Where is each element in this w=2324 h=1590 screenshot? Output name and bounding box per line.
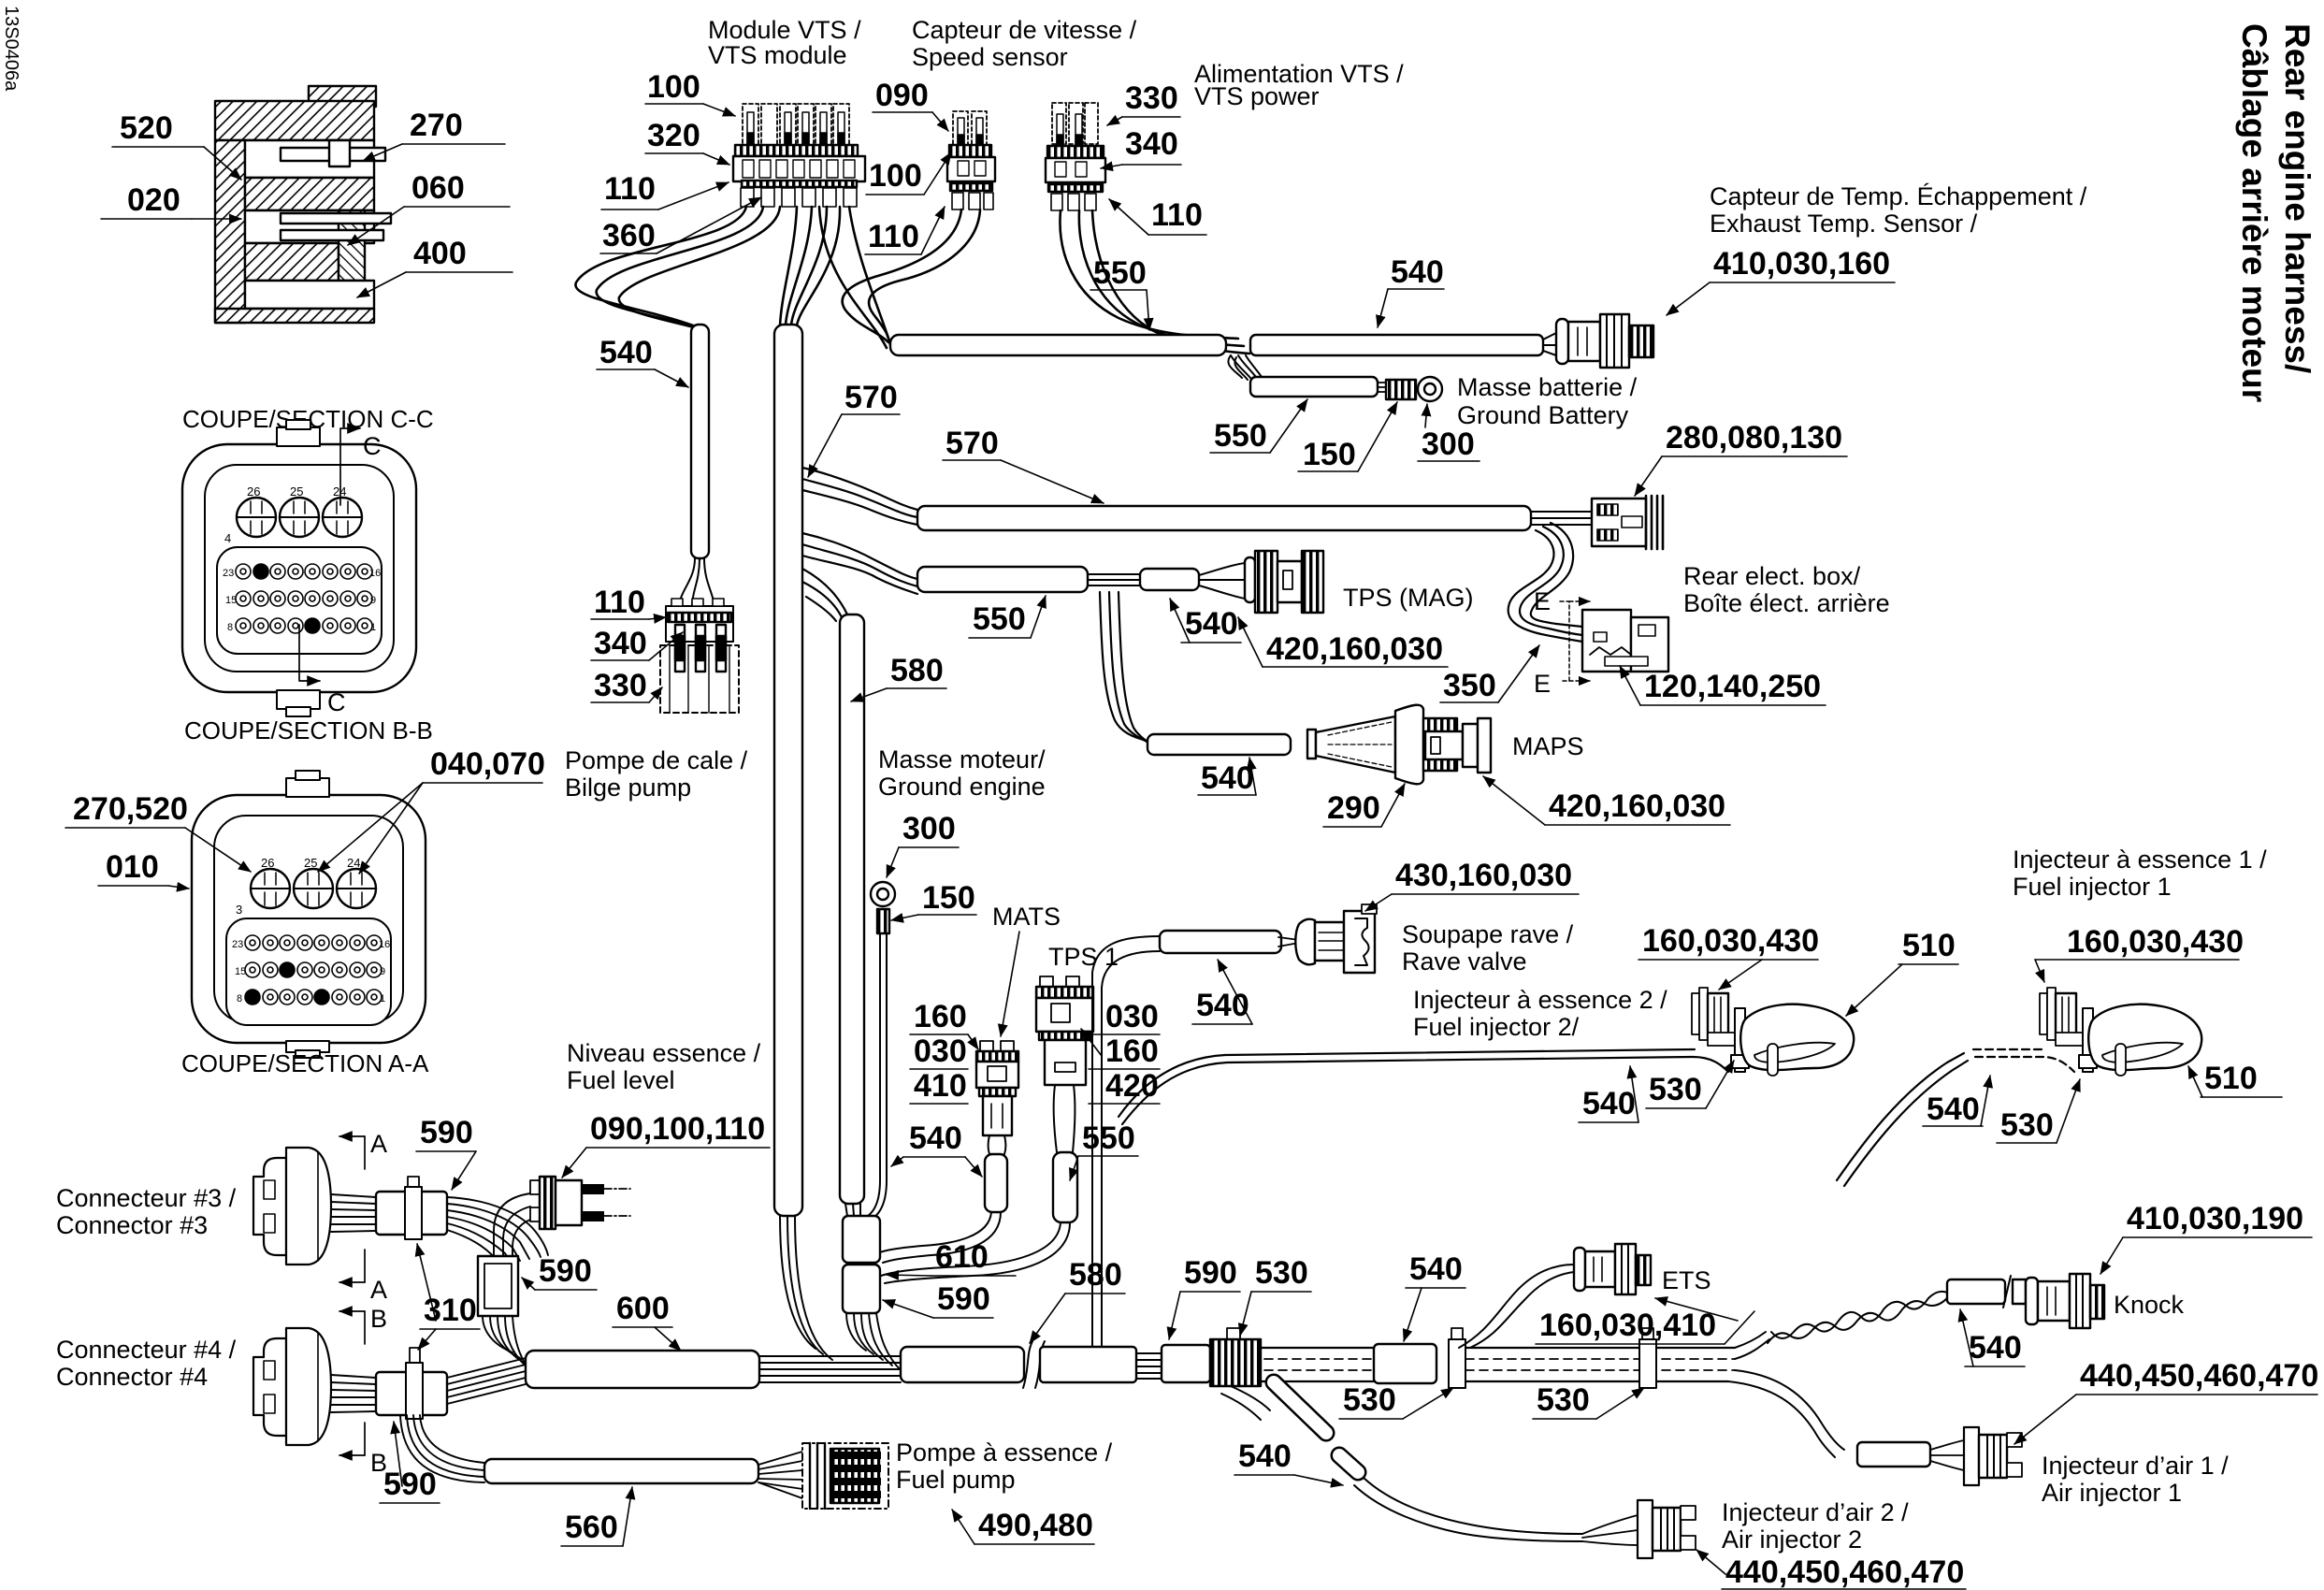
svg-text:E: E (1534, 587, 1551, 615)
label 530 clamp (1240, 1255, 1311, 1336)
connector rear elect box (1582, 610, 1668, 672)
svg-text:26: 26 (261, 856, 274, 870)
tube 540 MAPS (1148, 734, 1291, 755)
label 340 (1101, 126, 1181, 168)
wires down to MAPS (1100, 592, 1160, 749)
svg-text:300: 300 (1422, 426, 1475, 462)
svg-text:Module VTS /: Module VTS / (708, 16, 861, 44)
label 160,030,430 inj2 (1638, 923, 1819, 990)
wires conn3 (331, 1194, 376, 1232)
label 540 MAPS (1198, 758, 1256, 796)
label 440,450,460,470 top (2014, 1358, 2318, 1444)
wires MATS TPS1 to splice (877, 1212, 1070, 1283)
svg-text:520: 520 (120, 110, 173, 146)
boot 510 inj1 (2088, 1005, 2201, 1076)
wires conn4 drop to 560 (400, 1415, 484, 1482)
wires from VTS module fan-out (575, 207, 888, 348)
label 030 MATS (910, 1033, 968, 1069)
svg-text:570: 570 (945, 426, 999, 461)
connector fuel pump (802, 1443, 888, 1509)
connector TPS MAG (1245, 551, 1323, 613)
wires 570V bottom to bundle (780, 1216, 832, 1360)
svg-text:Rear engine harness/: Rear engine harness/ (2278, 23, 2317, 373)
svg-text:25: 25 (290, 484, 303, 499)
svg-text:Pompe à essence /: Pompe à essence / (896, 1438, 1113, 1467)
connector 4 shell (253, 1328, 331, 1445)
label 010 (98, 849, 189, 889)
fuel injector 2 harness wire (1119, 1049, 1728, 1124)
svg-text:160,030,430: 160,030,430 (2067, 924, 2244, 960)
main bundle conn4 to 600 (447, 1358, 526, 1404)
svg-text:410,030,160: 410,030,160 (1713, 246, 1890, 282)
label 340 bilge (591, 626, 683, 661)
tube 540 top (1250, 335, 1543, 355)
svg-text:590: 590 (1184, 1255, 1237, 1291)
label 110 (601, 171, 729, 210)
clamp 590 conn3 (405, 1177, 422, 1239)
label 410 MATS (910, 1068, 968, 1104)
svg-text:510: 510 (2204, 1061, 2258, 1096)
label 420,160,030 TPS (1238, 617, 1448, 667)
svg-text:580: 580 (1069, 1257, 1122, 1293)
label 560 (561, 1487, 632, 1546)
svg-text:26: 26 (247, 484, 260, 499)
svg-text:550: 550 (1214, 418, 1267, 454)
svg-text:Masse moteur/: Masse moteur/ (878, 745, 1046, 773)
svg-text:300: 300 (902, 811, 956, 846)
label 320 (645, 118, 729, 165)
svg-text:420,160,030: 420,160,030 (1266, 631, 1443, 667)
section E arrows (1534, 587, 1590, 698)
label 590 splice610 (883, 1281, 993, 1318)
svg-text:Masse batterie /: Masse batterie / (1457, 373, 1638, 401)
label 550 top (1090, 255, 1149, 330)
svg-text:540: 540 (1391, 254, 1444, 290)
label 590 clamp (1169, 1255, 1240, 1339)
svg-text:590: 590 (937, 1281, 990, 1317)
svg-text:320: 320 (647, 118, 700, 153)
dashed harness run2 (1465, 1348, 1735, 1381)
label 530 b (1533, 1382, 1644, 1419)
svg-text:570: 570 (844, 380, 898, 415)
row numbers A-A (232, 939, 390, 1005)
svg-text:440,450,460,470: 440,450,460,470 (1725, 1554, 1964, 1590)
svg-text:VTS module: VTS module (708, 41, 847, 69)
label 030 TPS1 (1089, 999, 1160, 1034)
wires air2 fan (1582, 1515, 1638, 1545)
label 330 bilge (591, 668, 662, 703)
svg-text:160,030,430: 160,030,430 (1642, 923, 1819, 959)
svg-text:Air injector 2: Air injector 2 (1722, 1525, 1862, 1554)
svg-text:540: 540 (1196, 988, 1249, 1023)
connector fuel level (530, 1177, 630, 1229)
ETS branch wires (1459, 1265, 1574, 1348)
label 600 (613, 1291, 681, 1351)
sleeve 540 run (1374, 1344, 1436, 1383)
label 310 (417, 1244, 480, 1350)
svg-text:530: 530 (2000, 1107, 2054, 1143)
connector air injector 2 (1638, 1500, 1696, 1558)
label 530 inj1 (0, 0, 1, 1)
connector knock (2026, 1274, 2104, 1328)
pin circle 25 A-A (294, 869, 333, 908)
label MATS (992, 903, 1061, 1036)
svg-text:540: 540 (599, 335, 653, 370)
section C-C cross-section body (215, 86, 391, 323)
wires speed sensor (843, 210, 980, 350)
wire drop to ground battery (1228, 355, 1248, 380)
svg-text:280,080,130: 280,080,130 (1666, 420, 1842, 455)
svg-text:160,030,410: 160,030,410 (1539, 1308, 1716, 1343)
svg-text:Fuel injector 2/: Fuel injector 2/ (1413, 1013, 1580, 1041)
air injector 2 branch (1221, 1386, 1270, 1420)
svg-text:Rave valve: Rave valve (1402, 947, 1527, 976)
svg-text:410,030,190: 410,030,190 (2127, 1201, 2303, 1236)
label 540 inj2 (1579, 1066, 1638, 1122)
tube 570 horizontal (917, 506, 1531, 530)
svg-text:540: 540 (1185, 606, 1238, 642)
svg-text:540: 540 (1582, 1086, 1636, 1121)
clamp 310 conn4 (406, 1348, 423, 1419)
tube break (1023, 1341, 1045, 1388)
svg-text:16: 16 (369, 568, 381, 579)
label 540 top (1378, 254, 1444, 327)
svg-text:030: 030 (1105, 999, 1159, 1034)
label 100 (645, 69, 735, 116)
clamp strap inj2 (1731, 1008, 1749, 1072)
boot 510 inj2 (1740, 1005, 1854, 1076)
label 580 (851, 653, 946, 701)
svg-text:Ground Battery: Ground Battery (1457, 401, 1629, 429)
svg-text:COUPE/SECTION B-B: COUPE/SECTION B-B (184, 716, 433, 744)
tube 540 TPS sleeve (1140, 569, 1199, 590)
svg-text:120,140,250: 120,140,250 (1644, 669, 1821, 704)
section A-A connector face (192, 771, 426, 1058)
svg-text:3: 3 (236, 903, 242, 917)
svg-text:110: 110 (594, 585, 645, 620)
tube 580 second part (1040, 1347, 1136, 1382)
svg-text:15: 15 (235, 966, 246, 977)
wires splicebox to bundle (483, 1316, 533, 1375)
svg-text:B: B (370, 1305, 387, 1333)
connector VTS module (733, 104, 865, 207)
label 020 (101, 182, 241, 219)
small sleeve (1162, 1345, 1210, 1382)
label 300 (1418, 404, 1480, 462)
svg-text:110: 110 (604, 171, 656, 207)
sleeve knock (1947, 1276, 2026, 1308)
wires splice610 fan to bundle (846, 1313, 902, 1371)
connector VTS power (1046, 103, 1105, 210)
wires bilge pump drop (679, 558, 715, 606)
svg-text:100: 100 (647, 69, 700, 105)
label 610 (887, 1239, 1016, 1276)
svg-text:310: 310 (424, 1293, 477, 1328)
svg-text:MATS: MATS (992, 903, 1061, 931)
svg-text:25: 25 (304, 856, 317, 870)
connector 280,080,130 (1592, 496, 1663, 549)
svg-text:A: A (370, 1276, 387, 1304)
label 540 rave (1192, 960, 1252, 1024)
svg-text:Rear elect. box/: Rear elect. box/ (1683, 562, 1861, 590)
svg-text:410: 410 (914, 1068, 967, 1104)
svg-text:Air injector 1: Air injector 1 (2042, 1479, 2182, 1507)
wire masse moteur vertical (880, 933, 887, 1180)
svg-text:020: 020 (127, 182, 180, 218)
label 350 (1440, 645, 1539, 703)
pin circle 26 (237, 498, 276, 537)
terminal ferrule 150 (1386, 380, 1416, 399)
wires 580V bottom to splice610 (845, 1204, 860, 1216)
label 420 TPS1 (1089, 1068, 1160, 1104)
sleeve air1 (1857, 1442, 1930, 1467)
label 550 TPS drop (1070, 1120, 1138, 1180)
svg-text:540: 540 (1969, 1330, 2022, 1366)
air injector 1 branch (1728, 1370, 1844, 1457)
section line C bottom (299, 625, 346, 716)
wires conn4 (331, 1375, 376, 1412)
svg-text:9: 9 (370, 595, 376, 606)
label 570 horizontal (943, 426, 1104, 503)
label 590 splice (522, 1253, 597, 1290)
svg-text:Soupape rave /: Soupape rave / (1402, 920, 1574, 948)
label 530 inj2 (1646, 1061, 1734, 1108)
label 110 second (865, 207, 945, 254)
svg-text:530: 530 (1649, 1072, 1702, 1107)
svg-text:4: 4 (224, 531, 231, 545)
label 510 inj1 (2188, 1061, 2282, 1097)
label 160,030,410 (1536, 1298, 1754, 1344)
label 420,160,030 MAPS (1483, 776, 1730, 825)
tube 580 horizontal (901, 1347, 1024, 1382)
label 590 conn4 (380, 1422, 440, 1503)
label 580 H (1030, 1257, 1125, 1343)
connector speed sensor (947, 111, 995, 210)
wires tube to ferrule (1378, 383, 1386, 392)
wires conn3 tube to splice (447, 1197, 548, 1265)
wires 560 to fuel pump (758, 1452, 802, 1498)
svg-text:400: 400 (413, 236, 467, 271)
pin circle 25 (280, 498, 319, 537)
label 440,450,460,470 bottom (1696, 1550, 1966, 1590)
label 530 a (1339, 1382, 1453, 1419)
svg-text:600: 600 (616, 1291, 670, 1326)
wires into 580 tube (802, 569, 847, 621)
label 550 mid (969, 596, 1046, 638)
svg-text:590: 590 (539, 1253, 592, 1289)
connector fuel injector 1 (2040, 988, 2084, 1046)
svg-text:550: 550 (1093, 255, 1147, 291)
splice box 590 (478, 1256, 518, 1316)
label 160,030,430 inj1 (2035, 924, 2244, 982)
svg-text:350: 350 (1443, 668, 1496, 703)
svg-text:VTS power: VTS power (1194, 82, 1320, 110)
wires to sleeve (1136, 1353, 1162, 1379)
svg-text:340: 340 (594, 626, 647, 661)
svg-text:ETS: ETS (1662, 1266, 1711, 1294)
svg-text:Connector #3: Connector #3 (56, 1211, 208, 1239)
svg-text:Injecteur d’air 1 /: Injecteur d’air 1 / (2042, 1452, 2229, 1480)
section B marks (339, 1305, 387, 1477)
svg-text:Exhaust Temp. Sensor /: Exhaust Temp. Sensor / (1710, 210, 1978, 238)
svg-text:420,160,030: 420,160,030 (1549, 788, 1725, 824)
wires masse moteur to splice (868, 1180, 887, 1218)
svg-text:100: 100 (869, 158, 922, 194)
label 510 inj2 (1846, 928, 1958, 1016)
svg-text:23: 23 (232, 939, 243, 950)
tube conn3 (376, 1192, 447, 1235)
small pins B-B (236, 564, 372, 633)
clamp strap inj1 (2079, 1008, 2097, 1072)
svg-text:13S0406a: 13S0406a (1, 6, 22, 92)
svg-text:010: 010 (106, 849, 159, 885)
svg-text:330: 330 (1125, 80, 1178, 116)
section B-B connector face (182, 420, 416, 716)
svg-text:540: 540 (1927, 1091, 1980, 1127)
connector ETS (1574, 1244, 1651, 1294)
tube 540 bilge vertical (691, 325, 709, 558)
tube 580 vertical (840, 614, 864, 1204)
tube 550 horizontal (917, 567, 1088, 592)
svg-text:Pompe de cale /: Pompe de cale / (565, 746, 748, 774)
svg-text:Knock: Knock (2114, 1291, 2185, 1319)
svg-text:540: 540 (1201, 760, 1254, 796)
svg-text:160: 160 (1105, 1033, 1159, 1069)
label 040,070 (318, 746, 545, 874)
label 110 third (1109, 197, 1206, 235)
svg-text:060: 060 (411, 170, 465, 206)
air2 wire run (1354, 1478, 1582, 1541)
label 160 TPS1 (1081, 1029, 1160, 1069)
svg-text:Capteur de Temp. Échappement /: Capteur de Temp. Échappement / (1710, 182, 2087, 210)
label 100 second (866, 152, 951, 195)
label 540 inj1 (1923, 1076, 1990, 1127)
svg-text:440,450,460,470: 440,450,460,470 (2080, 1358, 2318, 1394)
fuel injector 1 harness wire (1837, 1049, 2074, 1186)
wires 600 to 580 tube (759, 1356, 901, 1382)
svg-text:040,070: 040,070 (430, 746, 545, 782)
clamp 530 b (1639, 1328, 1656, 1388)
tube 560 (484, 1459, 758, 1483)
label 110 bilge (591, 585, 666, 620)
svg-text:530: 530 (1255, 1255, 1308, 1291)
label 120,140,250 (1620, 666, 1826, 705)
svg-text:Injecteur d’air 2 /: Injecteur d’air 2 / (1722, 1498, 1909, 1526)
svg-text:Ground engine: Ground engine (878, 773, 1046, 801)
tube 570 vertical (774, 325, 802, 1216)
svg-text:360: 360 (602, 218, 656, 253)
svg-text:MAPS: MAPS (1512, 732, 1584, 760)
wires VTS power (1060, 210, 1249, 354)
label 540 air2 (1234, 1438, 1343, 1485)
svg-text:160: 160 (914, 999, 967, 1034)
rave funnel (1278, 904, 1377, 973)
big pin numbers B-B (224, 484, 346, 545)
svg-text:C: C (327, 688, 346, 716)
tube 540 MATS drop (985, 1154, 1007, 1212)
svg-text:090: 090 (875, 78, 929, 113)
svg-text:530: 530 (1343, 1382, 1396, 1418)
svg-text:090,100,110: 090,100,110 (590, 1111, 765, 1147)
fork to knock twisted pair (1735, 1332, 1769, 1359)
svg-text:Injecteur à essence 2 /: Injecteur à essence 2 / (1413, 986, 1667, 1014)
tube 600 (526, 1351, 759, 1388)
svg-text:1: 1 (370, 622, 376, 633)
ring terminal engine (871, 882, 895, 906)
svg-text:110: 110 (1151, 197, 1203, 233)
wires fuel level to splice (494, 1193, 530, 1256)
label 090,100,110 fuel level (562, 1111, 770, 1178)
svg-text:030: 030 (914, 1033, 967, 1069)
svg-text:610: 610 (935, 1239, 989, 1275)
small pin field A-A (226, 918, 391, 1025)
section A marks (339, 1130, 387, 1304)
junction wiggle wires (1231, 355, 1265, 383)
label 400 (357, 236, 512, 297)
label 540 run (1404, 1251, 1465, 1341)
svg-text:550: 550 (1082, 1120, 1135, 1156)
svg-text:Câblage arrière moteur: Câblage arrière moteur (2235, 23, 2273, 402)
svg-text:420: 420 (1105, 1068, 1159, 1104)
svg-text:270: 270 (410, 108, 463, 143)
wires to TPS MAG (1199, 563, 1245, 599)
svg-text:9: 9 (380, 966, 385, 977)
label 280,080,130 (1635, 420, 1847, 496)
connector fuel injector 2 (1692, 988, 1736, 1046)
big pin numbers A-A (236, 856, 360, 917)
label 590 conn3 (416, 1115, 476, 1190)
label 490,480 (952, 1508, 1094, 1544)
svg-text:8: 8 (227, 622, 233, 633)
svg-text:150: 150 (922, 880, 975, 916)
wires 550H to 540 sleeve (1088, 574, 1140, 585)
rave pair down to bundle (1092, 1265, 1102, 1348)
connector MATS (976, 1041, 1018, 1154)
svg-text:16: 16 (379, 939, 390, 950)
svg-text:TPS (MAG): TPS (MAG) (1343, 584, 1474, 612)
label 540 TPS (1170, 599, 1241, 643)
diagonal sleeve air2 a (1274, 1382, 1326, 1433)
label 270,520 (65, 791, 251, 872)
svg-text:530: 530 (1537, 1382, 1590, 1418)
svg-text:Connecteur #4 /: Connecteur #4 / (56, 1336, 237, 1364)
ferrule engine (877, 909, 889, 933)
S-curve wires to rear elect box (1508, 523, 1582, 642)
svg-text:Niveau essence /: Niveau essence / (567, 1039, 761, 1067)
clamp 530 a (1449, 1328, 1465, 1388)
row numbers B-B (223, 568, 381, 633)
label 290 (1323, 784, 1405, 827)
svg-text:Connecteur #3 /: Connecteur #3 / (56, 1184, 237, 1212)
tube conn4 (376, 1372, 447, 1415)
twisted wire knock (1768, 1292, 1947, 1343)
label 410,030,190 (2100, 1201, 2312, 1274)
svg-text:590: 590 (420, 1115, 473, 1150)
svg-text:Bilge pump: Bilge pump (565, 773, 691, 802)
svg-text:340: 340 (1125, 126, 1178, 162)
svg-text:Capteur de vitesse /: Capteur de vitesse / (912, 16, 1137, 44)
tube 550 top (890, 335, 1226, 355)
svg-text:540: 540 (1409, 1251, 1463, 1287)
svg-text:590: 590 (383, 1467, 437, 1502)
label 150 (1298, 402, 1397, 472)
label 270 (363, 108, 505, 161)
svg-text:270,520: 270,520 (73, 791, 188, 827)
svg-text:15: 15 (225, 595, 237, 606)
svg-text:580: 580 (890, 653, 944, 688)
dashed harness run1 (1261, 1348, 1374, 1381)
svg-text:430,160,030: 430,160,030 (1395, 858, 1572, 893)
